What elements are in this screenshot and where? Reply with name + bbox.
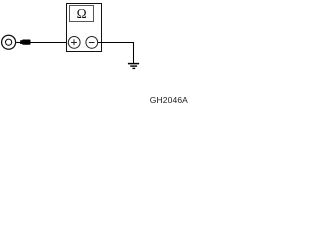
svg-text:Ω: Ω <box>77 6 87 21</box>
svg-text:GH2046A: GH2046A <box>150 95 188 105</box>
